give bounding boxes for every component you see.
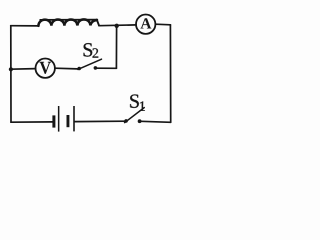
wire bottom-right to S1 xyxy=(141,121,171,122)
switch S1 xyxy=(124,108,144,124)
node middle-left junction xyxy=(9,67,13,71)
wire S2 to riser xyxy=(95,67,116,69)
wire ammeter to top-right corner xyxy=(155,23,170,26)
battery B1 xyxy=(52,106,74,132)
ammeter A xyxy=(136,15,155,34)
node junction top wire xyxy=(115,24,119,28)
wire S1 to battery xyxy=(75,120,125,122)
label S2 xyxy=(84,43,98,57)
switch S2 xyxy=(77,59,101,70)
voltmeter V xyxy=(36,58,55,77)
wire junction to voltmeter xyxy=(11,68,36,71)
wire top-left lead xyxy=(11,25,39,27)
wire left vertical xyxy=(10,26,12,123)
wire right vertical xyxy=(169,25,171,123)
wire voltmeter to S2 xyxy=(55,67,77,70)
wire coil to ammeter xyxy=(99,24,136,27)
wire battery to bottom-left corner xyxy=(11,121,53,123)
coil L1 xyxy=(38,19,99,26)
wire riser vertical xyxy=(115,26,117,69)
label S1 xyxy=(130,94,145,110)
